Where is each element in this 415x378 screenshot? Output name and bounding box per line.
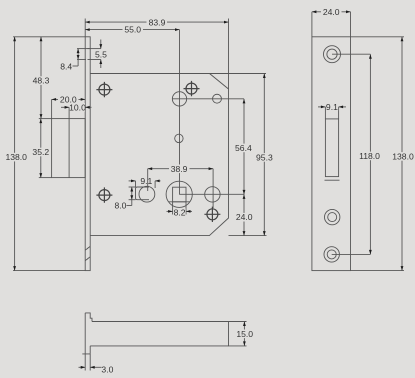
left view: faceplate break mark upper	[85, 246, 90, 250]
text 20.0	[58, 95, 79, 105]
left view: faceplate outline	[85, 37, 90, 271]
dim 138.0 bottom extension	[13, 270, 85, 272]
svg-text:9.1: 9.1	[326, 102, 338, 112]
left view: vertical extension through cylinder hole	[212, 169, 214, 208]
text 8.4	[60, 61, 72, 71]
dim 35.2 line	[40, 119, 42, 178]
left view: follower circle	[139, 186, 155, 202]
dim 9.1 right tail	[155, 180, 160, 182]
left view: top notch line upper	[88, 48, 101, 50]
svg-text:8.2: 8.2	[174, 208, 186, 218]
left view: lock case outline	[90, 74, 228, 236]
centerline overdraw through 38.9 text	[179, 164, 181, 173]
right view: bottom screw centerline to 118	[332, 253, 371, 255]
left view: right edge extension up to 83.9	[228, 19, 230, 90]
right dim 138.0 extensions	[351, 36, 405, 38]
dim 8.4 tick lower	[77, 59, 86, 61]
svg-text:3.0: 3.0	[101, 364, 113, 374]
dim 83.9 line	[85, 21, 228, 23]
left view: middle small hole	[175, 134, 183, 142]
screw cross marks	[96, 81, 220, 222]
right view: middle screw hole outer	[325, 209, 340, 224]
text 8.0	[115, 201, 127, 211]
arrows dim 20.0	[52, 98, 57, 101]
text 95.3	[254, 152, 275, 162]
right dim 138.0 line	[401, 37, 403, 271]
cross mark C left-middle	[96, 187, 112, 202]
svg-text:24.0: 24.0	[323, 7, 340, 17]
text 10.0	[69, 102, 86, 112]
left view: spindle outer circle	[166, 181, 192, 207]
arrows bottom dim 15.0	[243, 322, 246, 327]
dim 8.2 tails	[167, 210, 173, 212]
dim 8.0 shaft	[131, 187, 133, 206]
dim 5.5 lower shaft	[100, 60, 102, 69]
text 9.1 right view	[326, 102, 338, 112]
svg-text:83.9: 83.9	[149, 17, 166, 27]
left view: case top extension line to 95.3	[210, 73, 267, 75]
svg-text:15.0: 15.0	[236, 329, 253, 339]
text 3.0	[101, 364, 113, 374]
dim 8.2 extensions	[172, 202, 174, 215]
dim 138.0 top extension	[13, 36, 85, 38]
dim 55.0 line	[85, 29, 179, 31]
dim 10.0 extension	[68, 107, 70, 118]
left view: small hole right of latch	[213, 94, 222, 103]
arrows dim 95.3	[263, 74, 266, 79]
right view: plate outline	[312, 37, 351, 271]
arrows dim 35.2	[39, 119, 42, 124]
text 48.3	[31, 76, 51, 86]
dim 8.4 leader	[73, 65, 79, 67]
right view: latch slot lower line	[325, 179, 340, 181]
left view: latch hole big circle	[172, 92, 186, 106]
left view: pocket divider line	[68, 119, 70, 178]
arrows dim 8.4	[77, 49, 80, 54]
arrows dim 24.0 left view	[243, 194, 246, 199]
svg-text:8.0: 8.0	[115, 201, 127, 211]
arrows right dim 138.0	[401, 37, 404, 42]
dim 38.9 line	[148, 168, 213, 170]
left view: pocket rectangle	[52, 119, 86, 178]
dim 138.0 line left	[14, 37, 16, 271]
dim 8.0 leader	[127, 205, 132, 207]
pocket bottom extension left	[39, 177, 52, 179]
svg-text:24.0: 24.0	[236, 212, 253, 222]
arrows right dim 118.0	[369, 54, 372, 59]
text 118.0	[358, 151, 382, 161]
arrows dim 48.3	[40, 37, 43, 42]
arrows bottom dim 3.0	[81, 366, 86, 369]
cross mark A top-left	[96, 82, 112, 97]
text 83.9	[147, 17, 168, 27]
text 24.0 left view	[234, 212, 255, 222]
bottom dim 3.0 tails	[79, 366, 86, 368]
svg-text:9.1: 9.1	[140, 176, 152, 186]
left view: horizontal centerline spindle row	[179, 193, 244, 195]
left view: spindle chord line	[169, 201, 190, 203]
left view: top notch line lower	[88, 59, 101, 61]
arrows dim 10.0	[65, 106, 70, 109]
text 8.2	[174, 208, 186, 218]
dim 38.9 left extension	[147, 169, 149, 191]
svg-text:118.0: 118.0	[359, 151, 380, 161]
text 56.4	[233, 143, 254, 153]
svg-text:56.4: 56.4	[235, 143, 252, 153]
arrows dim 38.9	[148, 167, 153, 170]
left view: cylinder hole	[205, 187, 220, 202]
right view: top screw centerline to 118	[332, 53, 370, 55]
arrows right dim 9.1	[321, 106, 326, 109]
right view: top screw hole inner	[327, 49, 337, 59]
svg-text:5.5: 5.5	[95, 50, 107, 60]
right view: bottom screw hole outer	[324, 247, 339, 262]
right view: bottom screw hole inner	[327, 250, 336, 259]
svg-text:8.4: 8.4	[60, 61, 72, 71]
text 5.5	[95, 50, 108, 60]
svg-text:10.0: 10.0	[69, 102, 86, 112]
dim 20.0 line	[52, 98, 86, 100]
arrows dim 5.5	[99, 44, 102, 49]
arrows dim 138.0	[13, 37, 16, 42]
text 15.0	[234, 329, 255, 339]
text 9.1 left view	[140, 176, 152, 186]
bottom view: faceplate side	[82, 313, 92, 354]
left view: faceplate left extension up	[84, 19, 86, 37]
svg-text:95.3: 95.3	[256, 152, 273, 162]
left view: horizontal centerline latch row	[172, 98, 244, 100]
dim 9.1 left tail	[129, 180, 136, 182]
svg-text:48.3: 48.3	[33, 76, 50, 86]
text 38.9	[169, 164, 190, 174]
bottom dim 15.0 line	[243, 322, 245, 346]
left view: faceplate break mark lower	[85, 257, 90, 261]
text 35.2	[31, 147, 51, 157]
cross mark B top-middle	[184, 81, 200, 96]
right dim 24.0 extensions	[311, 12, 313, 37]
right view: top screw hole outer	[324, 46, 341, 63]
dim 8.0 ticks	[129, 186, 136, 188]
dim 56.4 and 24.0 shared line	[243, 99, 245, 236]
text 24.0 right view	[321, 7, 342, 17]
dim 9.1 extensions	[135, 181, 137, 187]
dim 10.0 line tails	[61, 106, 69, 108]
arrows dim 8.2	[168, 210, 173, 213]
right dim 9.1 tails	[318, 106, 325, 108]
left view: follower slot	[136, 187, 150, 200]
right dim 118.0 line	[369, 54, 371, 254]
right view: latch slot	[325, 119, 338, 177]
cross mark D bottom-right	[204, 207, 220, 222]
left view: spindle square hole	[173, 187, 186, 202]
arrows dim 83.9	[85, 21, 90, 24]
arrows right dim 24.0	[312, 10, 317, 13]
right view: middle screw hole inner	[328, 213, 337, 222]
arrows dim 56.4	[243, 99, 246, 104]
dim 5.5 upper shaft	[100, 40, 102, 49]
text 55.0	[123, 25, 144, 35]
dim 20.0 extension	[51, 99, 53, 118]
arrows dim 9.1 left view	[131, 180, 136, 183]
left view: vertical centerline through case	[179, 30, 181, 195]
dim 95.3 line	[263, 74, 265, 236]
dim 8.4 shaft	[77, 49, 79, 66]
text 138.0 right	[391, 152, 415, 162]
left view: case bottom extension line	[229, 235, 267, 237]
dim 48.3 line	[40, 37, 42, 119]
right dim 24.0 line	[312, 11, 351, 13]
arrows dim 8.0	[130, 187, 133, 192]
text 138.0 left	[5, 152, 29, 162]
pocket top extension left	[39, 118, 52, 120]
bottom view: case bar	[90, 322, 228, 346]
bottom dim 3.0 extensions	[84, 354, 86, 371]
right dim 9.1 extensions	[324, 107, 326, 119]
dim 8.4 tick upper	[77, 48, 90, 50]
svg-text:35.2: 35.2	[32, 147, 49, 157]
svg-text:55.0: 55.0	[124, 25, 141, 35]
arrows dim 55.0	[85, 28, 90, 31]
svg-text:138.0: 138.0	[5, 152, 27, 162]
bottom dim 15.0 extensions	[229, 321, 247, 323]
svg-text:138.0: 138.0	[392, 152, 414, 162]
